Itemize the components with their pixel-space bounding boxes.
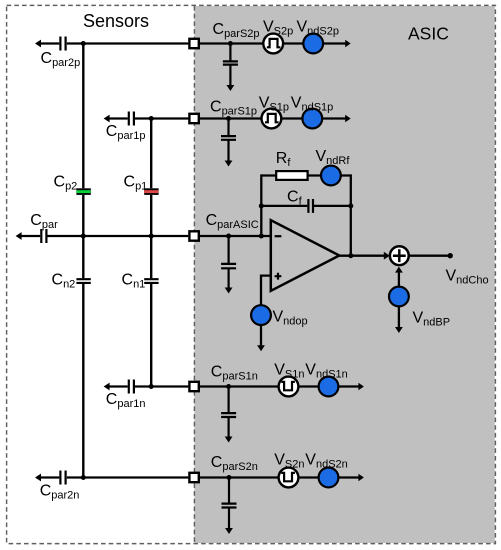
capacitor CparS2n to substrate <box>222 478 237 530</box>
noise source VndS1n <box>319 377 339 397</box>
wire row2 output <box>322 117 347 119</box>
node CparS1n junction <box>226 384 231 389</box>
wire VS1p to VndS1p <box>281 117 302 119</box>
node pad row3 (boundary square) <box>189 231 198 240</box>
wire op-amp output <box>339 255 386 257</box>
wire Cf branch <box>261 205 351 207</box>
wire row5 sensor side <box>40 476 189 478</box>
capacitor Cp1 (red sensor) <box>144 188 158 195</box>
svg-text:Cpar: Cpar <box>30 212 58 231</box>
arrow row2 output <box>345 115 351 123</box>
capacitor Cp2 (green sensor) <box>76 188 90 195</box>
node CparASIC junction <box>226 234 231 239</box>
wire feedback right vertical <box>350 174 352 255</box>
wire row4 output <box>338 385 360 387</box>
node output junction <box>348 253 353 258</box>
capacitor Cpar1n <box>129 380 134 394</box>
capacitor Cn1 <box>144 279 158 283</box>
svg-text:Cn1: Cn1 <box>122 272 146 291</box>
noise source VndS1p <box>302 109 322 129</box>
pulse source VS1p <box>262 109 282 129</box>
capacitor CparASIC to substrate <box>221 236 236 289</box>
capacitor CparS1p to substrate <box>221 119 236 163</box>
node Cf right junction <box>348 203 353 208</box>
wire row5 output <box>338 476 360 478</box>
wire noninverting input <box>261 276 271 306</box>
noise source Vndop <box>251 305 271 325</box>
arrow row5 left terminal <box>35 474 41 482</box>
arrow row1 left terminal <box>35 40 41 48</box>
node pad row5 (boundary square) <box>189 473 198 482</box>
op-amp plus sign <box>275 273 282 280</box>
ASIC region background <box>194 6 494 543</box>
pulse source VS1n <box>279 377 299 397</box>
capacitor CparS1n to substrate <box>221 387 236 439</box>
wire Vndop to substrate <box>260 325 262 347</box>
noise source VndS2n <box>319 468 339 488</box>
pulse source VS2n <box>279 468 299 488</box>
resistor Rf <box>276 171 307 180</box>
capacitor Cpar1p <box>129 112 134 126</box>
capacitor Cpar2n <box>60 471 65 485</box>
node pad row1 (boundary square) <box>189 39 198 48</box>
wire row3 ASIC side to op-amp <box>200 235 271 237</box>
node VndCho terminal <box>448 253 453 258</box>
svg-text:Cpar1p: Cpar1p <box>106 123 146 142</box>
wire row4 sensor side <box>108 385 189 387</box>
node CparS2n junction <box>227 475 232 480</box>
wire row2 sensor side <box>108 117 189 119</box>
svg-text:Cpar1n: Cpar1n <box>106 391 146 410</box>
arrow row3 left terminal <box>16 232 22 240</box>
node inverting input junction <box>259 234 264 239</box>
capacitor Cpar2p <box>60 37 65 51</box>
wire sensor2 vertical (node A) <box>82 44 84 478</box>
node CparS2p junction <box>228 41 233 46</box>
wire row3 sensor side <box>20 235 188 237</box>
svg-text:Cpar2p: Cpar2p <box>41 50 81 69</box>
svg-text:Cn2: Cn2 <box>52 272 76 291</box>
arrow row2 left terminal <box>104 115 110 123</box>
wire VS2p to VndS2p <box>283 42 304 44</box>
svg-text:ASIC: ASIC <box>408 24 449 44</box>
node row3 line B junction <box>149 234 154 239</box>
wire VndBP to substrate <box>398 306 400 328</box>
node pad row2 (boundary square) <box>189 114 198 123</box>
pulse source VS2p <box>263 34 283 54</box>
capacitor Cn2 <box>76 279 90 283</box>
Sensors/ASIC boundary dashed line <box>193 6 195 543</box>
node row1 sensor junction <box>81 41 86 46</box>
op-amp minus sign <box>275 235 282 237</box>
arrow into summing node <box>384 252 390 260</box>
wire feedback left vertical <box>260 174 262 236</box>
wire feedback top <box>261 174 351 176</box>
noise source VndS2p <box>303 34 323 54</box>
svg-text:Cp2: Cp2 <box>54 174 78 193</box>
noise source VndRf <box>321 166 341 186</box>
wire row1 sensor side <box>40 42 189 44</box>
wire row1 ASIC side <box>200 42 263 44</box>
wire row5 ASIC side <box>200 476 279 478</box>
capacitor Cf <box>308 199 313 213</box>
wire row2 ASIC side <box>200 117 262 119</box>
wire VndBP to summing node <box>398 271 400 287</box>
arrow row5 output <box>358 474 364 482</box>
node row5 sensor junction <box>81 475 86 480</box>
node CparS1p junction <box>226 116 231 121</box>
svg-text:Cpar2n: Cpar2n <box>40 483 80 502</box>
svg-text:Sensors: Sensors <box>83 11 149 31</box>
svg-text:Cp1: Cp1 <box>124 174 148 193</box>
node row2 sensor junction <box>149 116 154 121</box>
node row3 line A junction <box>81 234 86 239</box>
wire sensor1 vertical (node B) <box>150 119 152 387</box>
capacitor CparS2p to substrate <box>223 44 238 87</box>
wire summing output <box>409 255 449 257</box>
wire VS1n to VndS1n <box>298 385 319 387</box>
node Cf left junction <box>259 203 264 208</box>
arrow row1 output <box>345 40 351 48</box>
noise source VndBP <box>389 287 409 307</box>
wire row4 ASIC side <box>200 385 279 387</box>
capacitor Cpar <box>41 229 46 243</box>
op-amp U1 <box>271 220 340 291</box>
arrow row4 output <box>358 383 364 391</box>
wire VS2n to VndS2n <box>298 476 319 478</box>
summing node <box>390 246 409 265</box>
arrow row4 left terminal <box>104 383 110 391</box>
node row4 sensor junction <box>149 384 154 389</box>
wire row1 output <box>323 42 347 44</box>
node pad row4 (boundary square) <box>189 382 198 391</box>
